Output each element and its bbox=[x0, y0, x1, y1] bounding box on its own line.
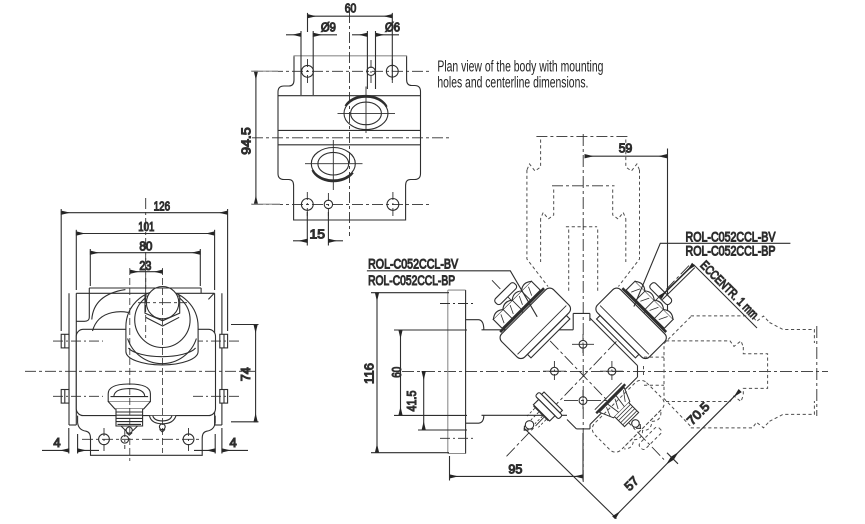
rotated square body bbox=[567, 313, 638, 429]
lever pivot bracket bbox=[76, 293, 89, 321]
dimension 94.5 (left) bbox=[239, 71, 280, 204]
left view vertical center axis bbox=[145, 198, 147, 336]
plan main horizontal centerline bbox=[252, 137, 452, 139]
diagonal chain dimension 57 / 70.5 bbox=[524, 391, 740, 519]
svg-text:Plan view of the body with mou: Plan view of the body with mounting bbox=[437, 59, 603, 76]
svg-text:15: 15 bbox=[310, 227, 326, 241]
side screw lower-left bbox=[53, 390, 103, 404]
bottom pin bbox=[150, 416, 176, 432]
left label ROL-C052CCL-BV/BP bbox=[367, 256, 537, 317]
upper roller port ellipse bbox=[338, 87, 396, 134]
foot hole left bbox=[99, 428, 110, 451]
svg-text:60: 60 bbox=[390, 367, 404, 378]
main vertical centerline bbox=[582, 134, 584, 483]
dimension 4 (left) bbox=[42, 428, 99, 454]
foot hole small bbox=[121, 429, 129, 449]
svg-text:ROL-C052CCL-BP: ROL-C052CCL-BP bbox=[686, 243, 776, 259]
mounting hole bottom-middle Ø6 bbox=[324, 200, 332, 208]
dimension 74 (right side) bbox=[231, 325, 259, 422]
left mounting plate bbox=[69, 293, 76, 425]
svg-text:126: 126 bbox=[154, 199, 171, 213]
knob inner rim circle bbox=[135, 292, 190, 347]
left roller assembly (45 deg) bbox=[477, 265, 576, 364]
plan main vertical centerline bbox=[349, 12, 351, 236]
svg-text:ROL-C052CCL-BP: ROL-C052CCL-BP bbox=[368, 272, 455, 288]
dimension 4 (right) bbox=[194, 428, 248, 454]
eccentricity leader line bbox=[694, 265, 758, 329]
right phantom body outline bbox=[644, 316, 815, 428]
body face bolt hole right bbox=[600, 361, 623, 382]
svg-text:74: 74 bbox=[239, 367, 253, 381]
svg-text:60: 60 bbox=[345, 1, 357, 15]
plan body top tab edge (light) bbox=[294, 55, 408, 57]
knob top boss circle bbox=[146, 287, 178, 319]
svg-text:4: 4 bbox=[230, 436, 237, 450]
body face bolt hole left bbox=[543, 361, 566, 382]
dimension 59 bbox=[585, 142, 668, 318]
bottom plug bbox=[108, 384, 150, 435]
right label ROL-C052CCL-BV/BP bbox=[634, 228, 791, 306]
top phantom roller axis lines bbox=[536, 136, 630, 185]
body face bolt hole bottom bbox=[564, 390, 609, 411]
body collar at plate bbox=[466, 320, 484, 424]
right mounting plate bbox=[215, 293, 222, 425]
svg-text:ROL-C052CCL-BV: ROL-C052CCL-BV bbox=[368, 256, 459, 272]
bottom-right recessed plug (solid) bbox=[594, 382, 655, 443]
main horizontal centerline bbox=[25, 370, 255, 372]
body top face 80mm line bbox=[89, 287, 201, 289]
svg-text:Ø9: Ø9 bbox=[321, 21, 336, 35]
side screw lower-right bbox=[193, 390, 240, 404]
mounting hole top-left Ø9 bbox=[302, 65, 314, 77]
right roller assembly (45 deg) bbox=[590, 265, 689, 364]
plan body outline bbox=[278, 56, 421, 220]
svg-text:95: 95 bbox=[508, 463, 522, 477]
diagonal centerline NW-SE bbox=[492, 280, 664, 459]
mounting hole bottom-right Ø9 bbox=[387, 199, 399, 211]
svg-text:59: 59 bbox=[619, 142, 633, 156]
plan top holes centerline bbox=[252, 70, 431, 72]
svg-text:101: 101 bbox=[138, 220, 154, 234]
svg-text:94.5: 94.5 bbox=[239, 127, 253, 155]
feet holes centerline bbox=[82, 438, 201, 440]
side screw upper-left bbox=[53, 334, 103, 348]
svg-text:holes and centerline dimension: holes and centerline dimensions. bbox=[437, 74, 588, 91]
body top plate line bbox=[76, 292, 214, 294]
body bar bottom edge bbox=[482, 414, 568, 416]
dimension Ø6 bbox=[352, 21, 400, 89]
pin centerline (23 right extension) bbox=[161, 268, 163, 453]
plan interior step line 3 bbox=[278, 144, 421, 146]
plan interior step line 1 bbox=[278, 95, 421, 97]
body top face line over knob bbox=[89, 287, 201, 289]
dimension Ø9 bbox=[286, 21, 337, 95]
knob cap bottom arcs bbox=[128, 339, 197, 364]
lower roller port ellipse bbox=[305, 140, 363, 190]
plan bottom holes centerline bbox=[252, 203, 430, 205]
svg-text:116: 116 bbox=[362, 363, 376, 384]
dimension 126 bbox=[61, 199, 227, 331]
dimension 95 bbox=[450, 433, 584, 481]
side screw upper-right bbox=[193, 334, 240, 348]
body face bolt hole top bbox=[572, 334, 594, 355]
dimension 15 (bottom) bbox=[293, 212, 343, 246]
dimension 101 bbox=[76, 220, 214, 290]
body bar top edge bbox=[482, 329, 574, 331]
plan interior step line 2 bbox=[278, 129, 421, 131]
main horizontal centerline bbox=[402, 370, 828, 372]
dimension 116 bbox=[362, 293, 449, 453]
view center axis over knob bbox=[145, 336, 147, 338]
top face side steps bbox=[89, 288, 214, 299]
top phantom body outline bbox=[527, 140, 640, 292]
knob centerline cross bbox=[138, 302, 187, 304]
svg-text:4: 4 bbox=[53, 436, 60, 450]
bottom plug (solid, -45 deg) bbox=[513, 390, 565, 442]
eccentricity arrow bbox=[660, 265, 695, 300]
dimension 80 bbox=[90, 240, 200, 286]
mounting hole top-middle Ø6 bbox=[367, 67, 375, 75]
dimension 60 bbox=[390, 330, 467, 415]
bottom flange feet outline bbox=[78, 416, 216, 456]
foot hole right bbox=[183, 428, 194, 451]
svg-text:41.5: 41.5 bbox=[405, 390, 419, 411]
hex nut on knob bbox=[145, 296, 180, 321]
bottom-right phantom roller bbox=[589, 377, 679, 467]
diagonal centerline NE-SW bbox=[507, 265, 691, 457]
dimension 41.5 bbox=[405, 371, 467, 430]
dimension 23 bbox=[130, 259, 163, 273]
right phantom end centerline bbox=[816, 326, 818, 416]
knob cap cylinder bbox=[126, 291, 198, 365]
mounting hole top-right Ø9 bbox=[386, 65, 398, 77]
main body block front face bbox=[76, 329, 215, 415]
mounting hole bottom-left Ø9 bbox=[301, 199, 313, 211]
mounting plate (side) bbox=[440, 290, 476, 453]
roller lever arc behind knob bbox=[92, 290, 128, 331]
dimension 60 (top) bbox=[308, 1, 393, 80]
svg-text:Ø6: Ø6 bbox=[385, 21, 400, 35]
plug centerline (23 left extension) bbox=[129, 268, 131, 461]
